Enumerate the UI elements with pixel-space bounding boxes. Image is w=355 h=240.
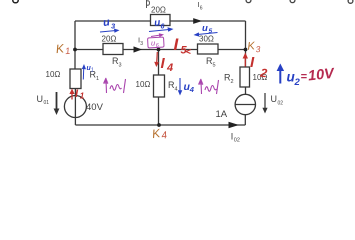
svg-text:10Ω: 10Ω [136,80,151,89]
svg-text:3: 3 [119,63,122,69]
svg-text:5: 5 [213,63,216,69]
purple mesh mark M2 [199,79,219,94]
svg-text:1: 1 [80,92,85,101]
svg-text:30Ω: 30Ω [199,35,214,44]
wire middle vertical branch [158,50,160,126]
svg-text:6: 6 [200,6,203,12]
resistor R6 20ohm top [151,15,171,26]
svg-text:5: 5 [209,28,213,35]
voltage source U01 [64,96,86,118]
svg-text:02: 02 [278,101,284,107]
handwritten node K1 [55,41,71,57]
svg-text:1: 1 [96,76,99,82]
svg-text:3: 3 [140,41,143,47]
node junction mid [157,48,161,52]
node K3 [244,48,248,52]
svg-text:1A: 1A [216,109,228,120]
handwritten voltage u4 blue [179,78,181,92]
arrow I6 on top rail [193,18,202,24]
purple boxed annotation [151,35,161,37]
svg-text:2: 2 [294,77,301,88]
svg-text:20Ω: 20Ω [151,6,166,15]
handwritten node K4 [151,125,168,143]
svg-text:2: 2 [231,79,234,85]
handwritten current I1 red [71,92,73,100]
svg-text:=: = [301,71,308,83]
current source 1A [235,94,255,114]
svg-text:1: 1 [65,46,71,56]
svg-text:6: 6 [161,24,165,31]
svg-text:02: 02 [234,138,240,143]
svg-text:U: U [37,94,44,104]
svg-text:U: U [271,94,278,104]
svg-text:20Ω: 20Ω [102,35,117,44]
wire middle rail [75,49,246,51]
wire right vertical [245,21,247,95]
wire bottom rail [75,124,245,126]
handwritten current I2 red [244,56,246,67]
resistor R2 [240,67,250,87]
svg-text:10Ω: 10Ω [46,70,61,79]
wire top rail [75,20,246,22]
cut-off text fragments at top [13,0,18,3]
handwritten voltage u2 blue [279,68,281,84]
wire right source stub [244,115,246,125]
handwritten voltage u1 blue [82,67,85,80]
svg-text:4: 4 [189,85,195,94]
resistor R3 [103,44,123,55]
wire left vertical [74,21,76,69]
arrow I3 on middle rail [134,46,143,52]
svg-text:5: 5 [181,45,188,57]
svg-text:01: 01 [44,100,50,106]
svg-text:1: 1 [91,68,94,74]
handwritten current I4 red [156,52,159,64]
resistor R1 [70,69,81,89]
arrow I02 on bottom rail [229,122,240,128]
node K4 [157,123,161,127]
svg-text:40V: 40V [86,102,104,113]
handwritten node K3 [247,40,261,55]
svg-text:4: 4 [166,62,173,74]
resistor R5 [198,44,219,54]
node K1 [73,48,77,52]
purple mesh mark M1 [104,78,126,93]
resistor R4 [154,75,165,97]
wire left source stub [74,69,76,125]
svg-text:4: 4 [175,87,178,93]
svg-text:10V: 10V [307,66,336,85]
svg-text:u: u [202,23,208,34]
